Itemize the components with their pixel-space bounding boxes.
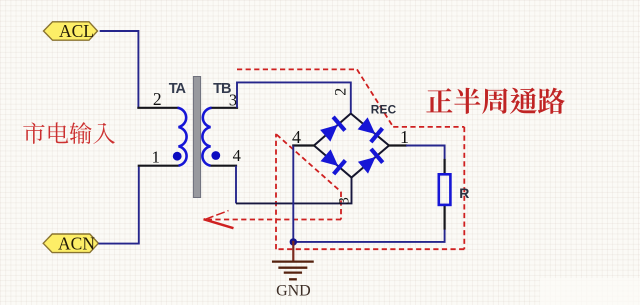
red title: positive half-cycle path: [426, 88, 452, 112]
resistor R: [439, 174, 451, 205]
svg-text:REC: REC: [371, 102, 397, 116]
bridge rectifier REC outline: [314, 114, 389, 178]
wire ACN to TA pin1: [98, 166, 138, 244]
svg-text:R: R: [459, 185, 469, 201]
wire REC pin4 down to ground node: [292, 146, 294, 242]
svg-text:3: 3: [337, 197, 353, 205]
diode D1 (left-top edge): [319, 117, 345, 143]
wire ground node to resistor bottom: [293, 229, 444, 242]
svg-text:1: 1: [152, 147, 161, 166]
transformer TB secondary winding: [202, 108, 237, 166]
transformer TA primary winding: [138, 108, 186, 166]
svg-text:3: 3: [229, 90, 237, 109]
junction node: [290, 238, 297, 245]
svg-text:ACL: ACL: [59, 21, 94, 41]
ground symbol: [273, 242, 313, 279]
svg-text:4: 4: [292, 127, 301, 147]
red dashed return path with arrow: [204, 135, 342, 229]
wire TB pin4 to REC pin3: [235, 166, 237, 204]
svg-text:TA: TA: [169, 81, 187, 97]
REC pin4 stub: [293, 144, 314, 146]
svg-text:2: 2: [153, 89, 162, 109]
REC pin1 stub: [389, 144, 406, 146]
red dashed current path (positive half-cycle loop): [237, 69, 464, 249]
grid fade bottom-right (background): [540, 278, 640, 305]
svg-text:GND: GND: [276, 283, 311, 300]
TB dot pin4: [211, 151, 220, 160]
TA dot pin1: [173, 152, 182, 161]
diode D4 (bottom-right edge): [357, 149, 383, 175]
diode D2 (top-right edge): [357, 117, 383, 143]
wire TB pin3 to REC pin2: [237, 82, 351, 113]
svg-text:4: 4: [233, 146, 241, 165]
svg-text:2: 2: [332, 88, 349, 96]
diode D3 (left-bottom edge): [320, 148, 346, 174]
svg-text:ACN: ACN: [58, 234, 95, 254]
port ACL: [44, 21, 98, 41]
transformer core: [193, 77, 200, 198]
svg-text:1: 1: [400, 127, 409, 147]
wire REC pin1 to resistor R: [406, 146, 445, 161]
wire ACL to TA pin2: [100, 31, 139, 108]
port ACN: [43, 234, 98, 254]
red label: mains input: [23, 122, 44, 143]
